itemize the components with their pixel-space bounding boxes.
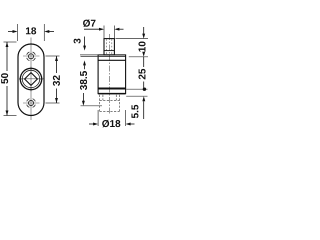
spindle hidden square hole dashed lines (106, 39, 108, 55)
dim25 line (143, 57, 145, 67)
dim50 text (1, 73, 8, 83)
dim3 extension line (ring seam) (81, 56, 99, 58)
axis centerline (109, 34, 111, 114)
dim5.5 extension line upper with dot (126, 88, 147, 90)
bottom screw hole (29, 101, 34, 106)
plate centerline vertical (30, 38, 32, 121)
dim3 extension line (flange top) (80, 54, 99, 56)
body outline (98, 55, 126, 94)
dim5.5 extension line lower (126, 95, 147, 97)
dim10 arrow from above (143, 27, 145, 34)
top screw hole (29, 54, 34, 59)
dimD18 left arrow (89, 123, 97, 125)
dim32 line (56, 56, 58, 73)
rosette quadrant ticks (19, 67, 43, 91)
dim50 arrows (6, 42, 9, 47)
body seam line (98, 88, 126, 90)
hidden latch dashed bottom line (100, 110, 120, 112)
dim18 left arrow (8, 31, 16, 33)
dimD18 extension line left (97, 110, 99, 126)
dim3 text (74, 39, 81, 44)
dimD18 right arrow (127, 123, 135, 125)
dimD7 right arrow (116, 28, 124, 30)
dim38.5 text (80, 71, 87, 90)
spindle outline (104, 39, 114, 55)
middle spindle hole centerline horizontal (19, 78, 44, 80)
dim3 upper arrow (84, 37, 86, 47)
dim18 extension line left (17, 24, 19, 41)
spindle groove line (104, 50, 114, 52)
dimD7 left arrow (84, 28, 103, 30)
dimD7 text (83, 19, 95, 27)
dimD18 extension line right (125, 110, 127, 126)
body bottom line thick (98, 93, 126, 95)
dimD18 text (102, 120, 120, 128)
dim50 extension line bottom (4, 115, 17, 117)
dim3 lower arrow (83, 60, 86, 65)
square spindle hole diamond (25, 73, 38, 86)
plate outline (18, 44, 44, 116)
bottom screw hole centerline horizontal (23, 102, 40, 104)
dim32 extension line top (46, 55, 60, 57)
flange bottom line (98, 59, 126, 61)
top screw hole centerline horizontal (23, 55, 40, 57)
dim32 extension line bottom (46, 102, 60, 104)
dim5.5 arrow from below (143, 101, 145, 119)
dim32 text (53, 75, 60, 85)
dim25 extension line top (129, 56, 148, 58)
dim25 arrows (142, 52, 145, 57)
dim32 arrows (55, 56, 58, 61)
dim5.5 text (131, 105, 138, 118)
middle rosette inner circle (22, 70, 39, 87)
dim18 extension line right (43, 24, 45, 41)
dim10 extension line top (116, 38, 149, 40)
hidden latch outer dashed verticals (99, 95, 101, 112)
body ring seam line (98, 56, 126, 58)
dim50 line (6, 42, 8, 71)
dim18 right arrow (46, 31, 54, 33)
hidden latch dashed step line (100, 100, 120, 102)
dim25 text (138, 69, 145, 79)
hidden latch inner dashed verticals (102, 95, 104, 101)
dimD7 extension line left (103, 26, 105, 39)
dim50 extension line top (4, 41, 17, 43)
dim38.5 lower line and arrow (82, 93, 84, 101)
dim10 text (138, 42, 145, 52)
dim18 text (26, 27, 36, 34)
middle rosette outer circle (20, 68, 41, 89)
dimD7 extension line right (113, 26, 115, 39)
dim38.5 extension line bottom (81, 105, 103, 107)
